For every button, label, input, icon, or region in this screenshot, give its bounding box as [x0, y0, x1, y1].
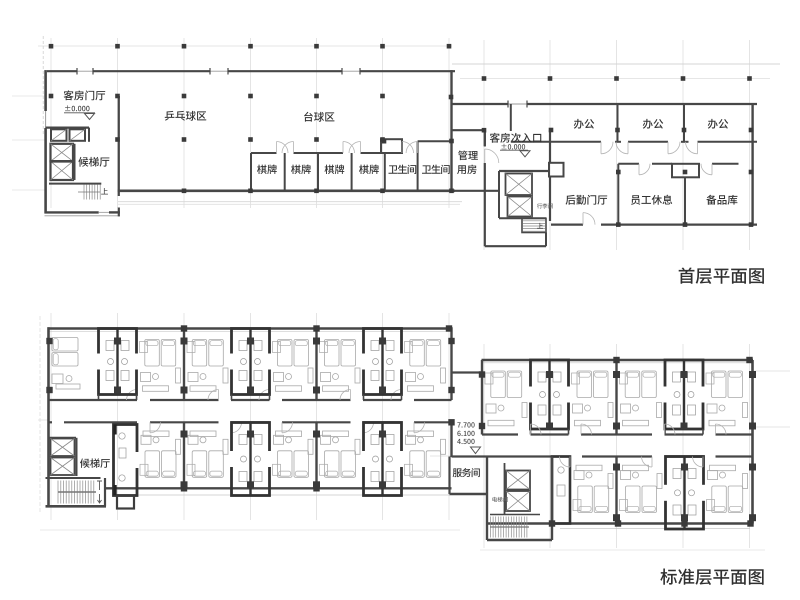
standard floor: left core lower protrusion	[117, 496, 134, 509]
first floor: staircase treads	[83, 185, 85, 200]
first floor: duct box above toilet	[381, 139, 402, 153]
standard floor: service room walls	[448, 457, 450, 495]
first floor: staff room walls	[617, 164, 619, 226]
standard floor: right block east wall	[751, 360, 754, 524]
first floor: staff room closet	[672, 164, 699, 178]
first floor: room label service lobby	[566, 195, 576, 205]
standard floor: elevator hall label	[80, 458, 90, 467]
standard floor: left block east wall	[450, 327, 452, 400]
standard floor: left block top exterior wall	[48, 327, 453, 329]
standard floor: columns at corridor and walls left block	[448, 419, 454, 425]
standard floor: junction wall to right block	[452, 371, 484, 373]
standard floor: bathroom cores top row	[99, 329, 137, 395]
first floor: room label management room	[458, 151, 467, 161]
standard floor: elevation marks	[457, 422, 460, 427]
standard floor: right corridor south wall	[452, 455, 571, 457]
first floor: guest lobby bottom wall with door	[45, 211, 99, 213]
first floor: room label staff rest	[631, 195, 640, 204]
standard floor: caption	[660, 569, 677, 585]
first floor: right wing top exterior wall with window	[452, 103, 509, 105]
first floor: chess room door arcs	[277, 142, 289, 154]
standard floor: room partition walls bottom row	[183, 422, 185, 488]
standard floor: right block bathroom cores bottom row	[552, 457, 570, 524]
first floor: columns office wing	[482, 128, 487, 133]
standard floor: room partition walls top row	[183, 329, 185, 401]
first floor: hall columns row C	[115, 137, 120, 142]
standard floor: right block west wall	[481, 360, 483, 435]
first floor: stair up label	[101, 188, 108, 194]
standard floor: right stair block walls	[486, 457, 488, 541]
standard floor: corridor south wall	[49, 421, 53, 423]
first floor: entrance label	[490, 133, 500, 143]
first floor: left block right wall	[450, 70, 452, 192]
first floor: entrance elevator shafts	[506, 174, 533, 196]
first floor: room label guest lobby	[64, 90, 74, 100]
first floor: caption	[679, 267, 695, 283]
standard floor: furniture right block top row	[491, 371, 506, 398]
standard floor: furniture right block bottom row	[578, 486, 593, 513]
first floor: management room walls	[452, 129, 485, 131]
first floor: guest lobby right wall	[118, 96, 120, 196]
first floor: elevator shafts of guest lobby	[46, 126, 89, 128]
first floor: room label storage	[706, 195, 716, 205]
first floor: hall columns row B	[49, 94, 54, 99]
standard floor: staircase treads	[57, 481, 59, 504]
first floor: left exterior wall	[44, 70, 47, 111]
first floor: toilet front wall	[418, 140, 452, 142]
first floor: office wing left wall	[510, 104, 512, 131]
standard floor: stair walls	[46, 477, 101, 479]
first floor: entrance stair	[499, 217, 546, 219]
standard floor: furniture guest rooms top row	[52, 338, 78, 352]
first floor: room labels offices	[574, 119, 584, 129]
first floor: stair top wall	[49, 183, 101, 185]
first floor: office partitions	[617, 104, 619, 142]
standard floor: small label at right stair	[492, 497, 497, 502]
first floor: entrance west wall with door	[484, 129, 486, 146]
standard floor: right stair treads	[490, 514, 540, 516]
standard floor: left block bottom wall	[105, 487, 452, 489]
standard floor: right corridor north wall	[482, 433, 518, 435]
first floor: level mark lobby	[65, 105, 70, 111]
first floor: room label elevator hall	[78, 157, 88, 167]
standard floor: columns right block	[613, 371, 620, 378]
standard floor: lobby bottom wall and stair enclosure	[46, 505, 107, 508]
standard floor: columns left block partitions	[181, 338, 188, 345]
standard floor: elevators	[51, 439, 75, 457]
standard floor: stair arrows	[97, 481, 102, 490]
first floor: back room door arcs	[583, 213, 595, 225]
standard floor: columns on west wall	[46, 338, 52, 344]
first floor: right wing bottom wall	[551, 224, 583, 226]
first floor: grid columns row A	[49, 44, 54, 49]
first floor: top exterior wall with window openings	[47, 70, 77, 72]
first floor: chess rooms front walls with doors	[251, 152, 277, 154]
standard floor: elevator lobby walls	[49, 437, 77, 439]
first floor: luggage room small label	[537, 203, 542, 208]
standard floor: right block partitions	[615, 360, 617, 435]
first floor: colonnade columns right wing	[482, 76, 487, 81]
first floor: office corridor wall with doors	[511, 141, 601, 143]
first floor: chess room partitions	[250, 153, 252, 191]
first floor: entrance hall east wall	[549, 130, 551, 163]
first floor: right wing east wall	[751, 104, 753, 226]
first floor: columns on hall bottom wall	[182, 189, 187, 194]
standard floor: corridor north wall	[49, 399, 138, 401]
first floor: duct box at entrance	[549, 163, 564, 177]
standard floor: lobby bathroom core	[114, 425, 138, 496]
standard floor: right block elevators	[504, 463, 506, 514]
standard floor: right block bathroom cores top row	[531, 360, 569, 429]
standard floor: bathroom cores bottom row	[232, 423, 270, 496]
standard floor: service room label	[453, 468, 462, 477]
first floor: office door arcs	[601, 142, 613, 154]
standard floor: right block bottom wall	[487, 522, 753, 524]
standard floor: left block west wall	[47, 327, 50, 506]
first floor: storage partition wall	[684, 177, 686, 225]
first floor: room label billiards area	[304, 112, 313, 122]
standard floor: furniture guest rooms bottom row	[145, 451, 160, 478]
first floor: entrance bottom wall	[485, 245, 546, 247]
first floor: room label table tennis area	[165, 111, 175, 121]
first floor: room labels chess rooms	[257, 165, 267, 174]
standard floor: right corridor door arcs	[531, 424, 542, 435]
standard floor: corridor door arcs	[127, 390, 138, 401]
first floor: entrance elevator core walls	[499, 170, 550, 172]
first floor: room labels toilets	[388, 165, 397, 173]
first floor: storage front wall	[712, 163, 739, 165]
first floor: billiard hall bottom wall	[118, 190, 455, 193]
standard floor: right block top exterior wall	[482, 359, 754, 361]
